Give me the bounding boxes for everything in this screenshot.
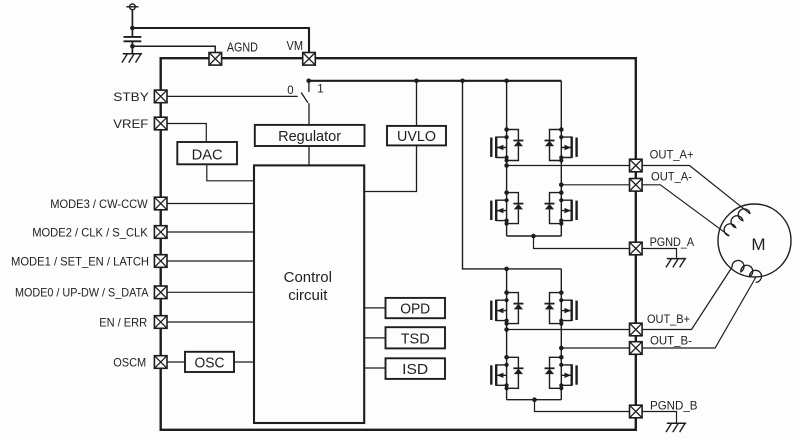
label OUT_B-	[650, 333, 692, 347]
svg-text:OPD: OPD	[400, 300, 430, 317]
node bridge B rail left	[504, 267, 509, 272]
label TSD	[401, 330, 430, 347]
pin MODE1	[154, 255, 167, 268]
pin VREF	[154, 117, 167, 130]
wire OUT_A- internal	[561, 184, 629, 186]
pin OUT_B+	[630, 323, 643, 336]
wire VM internal bus	[309, 80, 562, 82]
wire bridge A left column	[506, 81, 508, 236]
wire MODE1 to Control circuit	[167, 260, 254, 262]
wire OUT_A- to motor	[642, 185, 729, 236]
transistor Q7	[491, 355, 523, 390]
transistor Q8	[545, 355, 577, 390]
block ISD	[386, 358, 446, 379]
block Control circuit	[254, 165, 364, 423]
node bridge B rail center	[532, 397, 537, 402]
svg-text:PGND_A: PGND_A	[650, 235, 695, 249]
svg-text:MODE0 / UP-DW / S_DATA: MODE0 / UP-DW / S_DATA	[15, 286, 149, 300]
label OUT_A+	[650, 148, 694, 162]
label PGND_A	[650, 235, 695, 249]
svg-text:OUT_B-: OUT_B-	[650, 333, 692, 347]
label MODE1 / SET_EN / LATCH	[11, 254, 149, 268]
svg-text:OUT_A-: OUT_A-	[651, 169, 692, 183]
wire PGND_B internal	[535, 400, 630, 412]
wire PGND_A to ground	[642, 249, 676, 259]
label STBY	[113, 90, 149, 104]
wire OUT_B+ to motor	[642, 267, 732, 330]
label MODE0 / UP-DW / S_DATA	[15, 286, 149, 300]
block UVLO	[387, 126, 446, 145]
switch arm	[301, 93, 308, 103]
pin AGND	[209, 53, 222, 66]
label PGND_B	[650, 398, 698, 412]
wire supply to VM top	[132, 28, 309, 52]
wire bridge B left column	[506, 269, 508, 400]
svg-text:STBY: STBY	[113, 90, 149, 104]
pin PGND_A	[630, 242, 643, 255]
svg-text:DAC: DAC	[192, 146, 223, 163]
wire EN to Control circuit	[167, 321, 254, 323]
svg-text:VREF: VREF	[113, 117, 148, 131]
ground main	[122, 54, 142, 63]
svg-text:OSC: OSC	[195, 354, 225, 371]
transistor Q6	[545, 290, 577, 325]
label 0	[287, 85, 293, 97]
svg-text:MODE3 / CW-CCW: MODE3 / CW-CCW	[50, 197, 148, 211]
transistor Q1	[491, 127, 523, 162]
switch contact 1 stub	[308, 81, 310, 92]
svg-text:ISD: ISD	[402, 361, 428, 378]
node OUT_A+ junction	[504, 163, 509, 168]
label OSCM	[113, 355, 146, 369]
block OSC	[185, 352, 234, 372]
label OPD	[400, 300, 430, 317]
transistor Q2	[545, 127, 577, 162]
node VM bus at UVLO	[414, 79, 419, 84]
wire bridge B feed vertical	[463, 81, 562, 269]
label OUT_B+	[647, 312, 690, 326]
svg-text:OUT_A+: OUT_A+	[650, 148, 694, 162]
pin OSCM	[154, 356, 167, 369]
svg-text:EN / ERR: EN / ERR	[99, 315, 147, 329]
label VM	[287, 39, 304, 53]
wire bridge B bottom rail	[507, 399, 562, 401]
wire Control to OPD	[364, 307, 386, 309]
wire bridge A bottom rail	[507, 235, 562, 237]
node VM bus at bridge B feed	[460, 79, 465, 84]
svg-text:VM: VM	[287, 39, 304, 53]
label Regulator	[278, 128, 341, 145]
node capacitor bottom junction	[130, 44, 135, 49]
wire MODE2 to Control circuit	[167, 231, 254, 233]
svg-text:AGND: AGND	[227, 41, 258, 55]
node supply junction	[130, 26, 135, 31]
wire DAC to Control circuit	[207, 164, 254, 181]
block Regulator	[255, 125, 365, 146]
wire OUT_B- internal	[561, 347, 629, 349]
label AGND	[227, 41, 258, 55]
svg-text:UVLO: UVLO	[397, 128, 436, 145]
wire power vertical	[131, 10, 133, 37]
node OUT_B- junction	[559, 346, 564, 351]
wire STBY to switch	[167, 95, 298, 97]
transistor Q3	[491, 190, 523, 225]
capacitor C1	[124, 37, 142, 41]
IC boundary box	[161, 58, 636, 430]
svg-text:OSCM: OSCM	[113, 355, 146, 369]
pin MODE3	[154, 197, 167, 210]
svg-text:PGND_B: PGND_B	[650, 398, 698, 412]
wire UVLO top	[416, 81, 418, 126]
pin MODE2	[154, 226, 167, 239]
label OUT_A-	[651, 169, 692, 183]
wire switch common to Regulator	[308, 103, 310, 125]
wire OUT_B- to motor	[642, 278, 756, 349]
wire bridge B right column	[560, 269, 562, 400]
wire OUT_A+ internal	[507, 165, 630, 167]
power supply symbol	[126, 4, 138, 10]
pin EN	[154, 316, 167, 329]
node bridge A rail center	[531, 234, 536, 239]
svg-text:0: 0	[287, 85, 293, 97]
label UVLO	[397, 128, 436, 145]
pin OUT_B-	[630, 342, 643, 355]
wire OUT_A+ to motor	[642, 166, 750, 214]
svg-text:1: 1	[317, 84, 323, 96]
label VREF	[113, 117, 148, 131]
wire OUT_B+ internal	[507, 329, 630, 331]
svg-text:TSD: TSD	[401, 330, 430, 347]
wire Control to ISD	[364, 367, 386, 369]
wire MODE0 to Control circuit	[167, 291, 254, 293]
label ISD	[402, 361, 428, 378]
node VM bus at bridge A	[504, 79, 509, 84]
pin STBY	[154, 90, 167, 103]
node OUT_A- junction	[559, 183, 564, 188]
wire UVLO to Control circuit	[364, 145, 416, 191]
coil A	[724, 209, 750, 236]
svg-text:Regulator: Regulator	[278, 128, 341, 145]
wire capacitor to ground	[131, 41, 133, 53]
wire PGND_A internal	[534, 236, 630, 249]
label EN / ERR	[99, 315, 147, 329]
wire bridge A right column	[560, 81, 562, 236]
pin PGND_B	[630, 405, 643, 418]
label 1	[317, 84, 323, 96]
ground PGND_B	[666, 423, 686, 432]
block OPD	[386, 298, 446, 318]
wire Regulator to Control circuit	[308, 146, 310, 165]
svg-text:OUT_B+: OUT_B+	[647, 312, 690, 326]
svg-text:circuit: circuit	[288, 287, 328, 304]
pin MODE0	[154, 286, 167, 299]
coil B	[732, 260, 761, 282]
pin OUT_A+	[630, 159, 643, 172]
label MODE2 / CLK / S_CLK	[32, 225, 148, 239]
wire OSC to Control circuit	[234, 361, 254, 363]
label DAC	[192, 146, 223, 163]
label OSC	[195, 354, 225, 371]
node OUT_B+ junction	[504, 327, 509, 332]
svg-text:MODE1 / SET_EN / LATCH: MODE1 / SET_EN / LATCH	[11, 254, 149, 268]
pin VM	[303, 53, 316, 66]
block DAC	[177, 142, 237, 164]
node VM bus at switch	[306, 79, 311, 84]
wire MODE3 to Control circuit	[167, 203, 254, 205]
wire to AGND pin	[132, 46, 215, 52]
label MODE3 / CW-CCW	[50, 197, 148, 211]
wire VREF to DAC	[167, 124, 206, 143]
svg-text:M: M	[751, 235, 765, 254]
block TSD	[386, 327, 446, 348]
transistor Q4	[545, 190, 577, 225]
ground PGND_A	[666, 259, 686, 268]
wire Control to TSD	[364, 337, 386, 339]
wire OSCM to OSC	[167, 361, 185, 363]
transistor Q5	[491, 290, 523, 325]
motor M1	[718, 204, 791, 277]
svg-text:Control: Control	[284, 269, 332, 286]
label Control circuit	[284, 269, 332, 304]
svg-text:MODE2 / CLK / S_CLK: MODE2 / CLK / S_CLK	[32, 225, 148, 239]
pin OUT_A-	[630, 179, 643, 192]
wire PGND_B to ground	[642, 412, 676, 424]
